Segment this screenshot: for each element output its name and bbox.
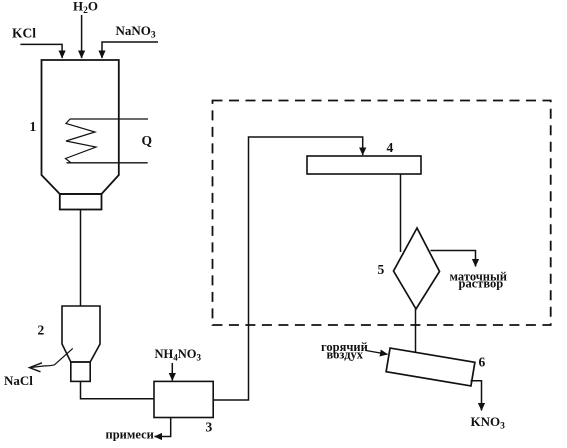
wire KCl feed into vessel 1 [20, 44, 62, 58]
separator 2 neck box [71, 362, 90, 381]
svg-text:примеси: примеси [106, 428, 154, 442]
wire crystallizer 5 to dryer 6 [415, 309, 417, 353]
crystallizer 5 diamond [394, 228, 440, 309]
svg-text:6: 6 [479, 355, 486, 370]
svg-text:H2O: H2O [73, 0, 98, 16]
svg-text:раствор: раствор [459, 277, 504, 291]
svg-text:2: 2 [38, 323, 45, 338]
svg-text:NaNO3: NaNO3 [116, 23, 156, 41]
svg-text:NaCl: NaCl [4, 373, 33, 388]
vessel 1 reactor body [42, 60, 119, 194]
separator 2 body [62, 306, 100, 362]
wire KNO3 outlet from dryer 6 [471, 381, 482, 411]
wire mother liquor outlet [431, 251, 476, 267]
wire NaNO3 feed into vessel 1 [102, 42, 158, 58]
wire H2O feed arrow into vessel 1 [81, 15, 83, 58]
svg-text:Q: Q [142, 133, 153, 148]
wire NaCl arrowhead [30, 363, 43, 372]
wire evaporator 4 to crystallizer 5 [400, 174, 402, 252]
vessel 1 bottom outlet box [60, 194, 102, 210]
svg-text:5: 5 [378, 262, 385, 277]
wire heater bottom line [67, 162, 148, 164]
wire vessel 1 to separator 2 [80, 210, 82, 307]
wire separator 2 to mixer 3 [81, 381, 155, 398]
wire NH4NO3 feed arrow into mixer 3 [171, 363, 173, 381]
svg-text:NH4NO3: NH4NO3 [155, 347, 202, 363]
dryer 6 tilted drum [386, 348, 475, 386]
evaporator 4 body [307, 156, 421, 174]
svg-text:KNO3: KNO3 [471, 414, 506, 432]
wire mixer 3 to evaporator 4 riser [213, 137, 363, 400]
wire heater top line [70, 118, 148, 120]
svg-text:воздух: воздух [327, 348, 364, 362]
dashed boundary box [213, 101, 551, 326]
mixer 3 body [154, 381, 213, 417]
wire NaCl pointer arrow [31, 348, 73, 367]
wire hot air arrow into dryer 6 [366, 351, 388, 355]
svg-text:KCl: KCl [12, 26, 36, 41]
svg-text:1: 1 [30, 119, 37, 134]
wire impurities outlet from mixer 3 [155, 418, 171, 437]
svg-text:3: 3 [206, 420, 213, 435]
heating coil in vessel 1 [66, 119, 97, 163]
svg-text:4: 4 [387, 140, 394, 155]
